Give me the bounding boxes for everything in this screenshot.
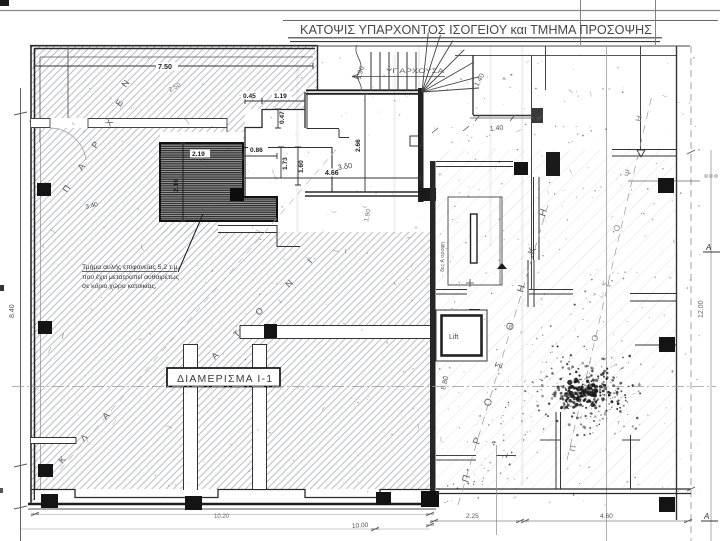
- main room bottom wall: [305, 192, 421, 196]
- core col top-right: [546, 152, 560, 176]
- core room rect inner edge: [499, 197, 501, 285]
- outer wall top: [30, 46, 318, 49]
- column col left a: [37, 183, 51, 196]
- wall y291 segment a: [436, 290, 467, 295]
- bottom dim line 2: [20, 528, 430, 530]
- vertical wall x557 bottom: [556, 412, 561, 489]
- dimension ticks bottom: [31, 512, 692, 531]
- svg-text:0.86: 0.86: [250, 147, 263, 154]
- svg-text:4.66: 4.66: [325, 170, 339, 177]
- svg-text:8.40: 8.40: [9, 304, 16, 318]
- room wall horizontal y115: [473, 115, 531, 117]
- wall y295 segment c: [630, 294, 676, 302]
- column col bottom a: [41, 494, 58, 508]
- svg-text:2.25: 2.25: [466, 513, 479, 520]
- dimension 2.66: [355, 94, 368, 192]
- dimension 0.86: [243, 146, 277, 160]
- lift shaft: [436, 310, 487, 361]
- bottom wall top profile: [31, 490, 434, 498]
- corner column footprint: [419, 188, 436, 201]
- dark hatched patch (converted yard): [160, 143, 277, 221]
- svg-text:10.00: 10.00: [352, 522, 369, 530]
- apartment label box: [167, 368, 280, 387]
- wall y151 double: [612, 150, 676, 157]
- hatched yard area top-left block: [31, 46, 317, 143]
- outer wall left: [31, 45, 35, 504]
- dimension 1.60: [295, 147, 305, 185]
- pencil squiggle marks: [43, 57, 680, 499]
- bottom wall second line: [28, 508, 436, 510]
- white footprint main room: [305, 88, 421, 196]
- core room rect: [448, 197, 502, 285]
- svg-text:A: A: [705, 243, 711, 252]
- svg-text:2.19: 2.19: [192, 151, 205, 158]
- svg-text:δες Α οροφη: δες Α οροφη: [440, 242, 446, 272]
- svg-text:A: A: [703, 512, 709, 521]
- footprint top wall: [306, 90, 422, 94]
- stairs fan: [422, 32, 479, 92]
- wall below dark patch: [218, 225, 300, 247]
- inner offset line top-left: [40, 57, 313, 143]
- scan streak: [418, 46, 420, 88]
- dash-dot reference line: [12, 386, 716, 388]
- white footprint step room: [245, 109, 305, 196]
- column col right bottom: [659, 497, 675, 512]
- door arc corridor: [50, 128, 86, 160]
- dim line y181: [628, 180, 700, 182]
- hatch block right edge at stairs: [317, 45, 319, 90]
- bottom room wall a: [436, 456, 476, 461]
- svg-text:1.60: 1.60: [298, 160, 305, 173]
- black column in dark patch: [230, 188, 244, 201]
- svg-text:ΔΙΑΜΕΡΙΣΜΑ Ι-1: ΔΙΑΜΕΡΙΣΜΑ Ι-1: [177, 373, 273, 385]
- stair break line: [356, 45, 361, 91]
- handwriting marks right edge: [705, 175, 718, 178]
- partition stub B: [252, 344, 267, 489]
- stair direction arrow: [352, 74, 445, 79]
- bottom wall white band: [35, 489, 434, 504]
- left dim line: [9, 88, 27, 541]
- bottom wall main line: [28, 503, 436, 505]
- column col bottom b: [185, 496, 202, 510]
- marker A right: [703, 243, 720, 252]
- dimension 7.50: [34, 62, 313, 71]
- vertical fold line left of title: [580, 0, 582, 45]
- white corridor: [243, 143, 429, 232]
- dashed diagonal left yard: [60, 145, 340, 470]
- dimension 2.10: [173, 143, 186, 221]
- dashed diagonal ΠΡΟΣΘΗΚΗ: [458, 205, 548, 505]
- core wall right lower: [528, 260, 534, 307]
- wall stub y345: [635, 344, 676, 346]
- title block top line: [283, 20, 718, 22]
- stairs treads vertical: [371, 52, 416, 91]
- svg-text:σε κύριο χώρο κατοικίας,: σε κύριο χώρο κατοικίας,: [82, 282, 157, 290]
- svg-text:2.10: 2.10: [173, 179, 180, 192]
- separation wall left/right: [430, 161, 436, 504]
- inner offset line left lower: [40, 143, 42, 489]
- title underline double: [288, 38, 662, 42]
- svg-text:που έχει μετατραπεί αυθαιρέτως: που έχει μετατραπεί αυθαιρέτως: [82, 273, 180, 281]
- dimension 0.45: [241, 92, 262, 105]
- svg-text:10.20: 10.20: [214, 514, 230, 520]
- dim 4.60: [525, 513, 688, 521]
- room wall vertical x473: [472, 55, 474, 115]
- scan streak: [296, 60, 299, 232]
- separation wall corner column: [421, 491, 439, 507]
- interior wall x68: [67, 48, 69, 118]
- room wall vertical x640: [640, 46, 642, 149]
- room wall vertical x545: [545, 46, 547, 90]
- dimension 1.73: [278, 147, 289, 178]
- hatched yard area left column: [31, 143, 160, 503]
- right section top wall: [316, 45, 690, 47]
- bottom dim line 1: [35, 514, 430, 516]
- middle wall band: [240, 325, 430, 339]
- column col mid: [514, 162, 528, 175]
- hatched strip below dark patch: [160, 221, 218, 233]
- scan streak: [393, 55, 396, 235]
- dim ticks stairs row: [432, 115, 542, 133]
- dimension 2.19: [160, 150, 243, 161]
- thin line x496: [496, 445, 498, 535]
- column col right top: [658, 178, 674, 193]
- column col right mid: [659, 337, 675, 352]
- footprint left step outline: [243, 92, 305, 196]
- column col lift right: [469, 309, 480, 321]
- core top wall: [436, 162, 513, 167]
- stub y440 b: [622, 439, 640, 441]
- stair slot: [471, 214, 478, 263]
- vertical fold line right of title: [655, 0, 657, 45]
- column col mid-band: [264, 324, 277, 338]
- dim 2.25: [434, 513, 520, 521]
- stub y440 a: [540, 439, 560, 441]
- core tick: [466, 279, 474, 287]
- core wall right upper: [534, 177, 540, 260]
- radiator element: [531, 108, 543, 123]
- edge blemish a: [0, 285, 4, 291]
- scan streak: [521, 46, 524, 486]
- svg-text:2.66: 2.66: [355, 139, 362, 152]
- svg-text:4.60: 4.60: [600, 513, 613, 520]
- right outer wall: [676, 46, 678, 520]
- closet steps: [307, 94, 349, 138]
- column col bottom c: [376, 492, 391, 505]
- white wall strip above dark patch: [160, 132, 243, 143]
- scan speckle noise: [29, 50, 700, 506]
- dimension 0.47: [275, 109, 286, 128]
- column col lift corner: [443, 321, 454, 334]
- column col left b: [38, 321, 52, 334]
- faint hatch bleed right section: [436, 150, 676, 488]
- corridor top wall: [243, 147, 332, 192]
- svg-text:7.50: 7.50: [158, 62, 172, 71]
- hatched yard area lower block: [160, 228, 430, 503]
- dimension 4.66: [243, 169, 421, 182]
- edge blemish b: [0, 488, 3, 493]
- sheet line x711: [710, 150, 712, 541]
- footprint right wall thick: [418, 88, 424, 202]
- partition stub A: [183, 344, 198, 490]
- right bottom wall: [436, 489, 691, 494]
- dimension 1.19: [262, 92, 305, 105]
- sheet line x691: [690, 46, 692, 541]
- room wall vertical x531: [531, 55, 533, 289]
- column col left c: [38, 464, 53, 477]
- radiator b: [410, 136, 422, 146]
- marker A bottom-right: [701, 512, 718, 521]
- triangle marker: [637, 150, 645, 157]
- svg-text:0.45: 0.45: [243, 93, 256, 100]
- corner mark top-left: [0, 0, 9, 6]
- annotation underline: [82, 271, 177, 273]
- svg-text:0.47: 0.47: [279, 111, 286, 124]
- svg-text:Τμήμα αυλής επιφανείας 5,2 τ.μ: Τμήμα αυλής επιφανείας 5,2 τ.μ.: [82, 263, 179, 271]
- svg-text:ΚΑΤΟΨΙΣ ΥΠΑΡΧΟΝΤΟΣ ΙΣΟΓΕΙΟΥ κα: ΚΑΤΟΨΙΣ ΥΠΑΡΧΟΝΤΟΣ ΙΣΟΓΕΙΟΥ και ΤΜΗΜΑ ΠΡ…: [300, 22, 652, 37]
- ticks 12.00 line: [687, 150, 695, 491]
- sheet line x606: [606, 46, 608, 541]
- dark patch inner divider: [182, 143, 184, 221]
- wall stub left y437: [31, 437, 76, 444]
- corridor wall band: [31, 118, 227, 140]
- svg-text:1.19: 1.19: [274, 93, 287, 100]
- dashed diagonal facade: [567, 95, 652, 460]
- right section second top line: [455, 55, 676, 57]
- svg-text:12.00: 12.00: [698, 300, 705, 318]
- sheet top edge line: [0, 10, 720, 12]
- scan streak: [489, 46, 492, 246]
- annotation leader line: [178, 214, 203, 272]
- vertical wall x630 bottom: [630, 435, 632, 489]
- svg-text:Lift: Lift: [449, 334, 458, 341]
- core triangle: [497, 263, 507, 269]
- wall y291 segment b: [529, 290, 573, 295]
- svg-text:1.73: 1.73: [282, 157, 289, 170]
- bottom room wall b: [496, 455, 516, 457]
